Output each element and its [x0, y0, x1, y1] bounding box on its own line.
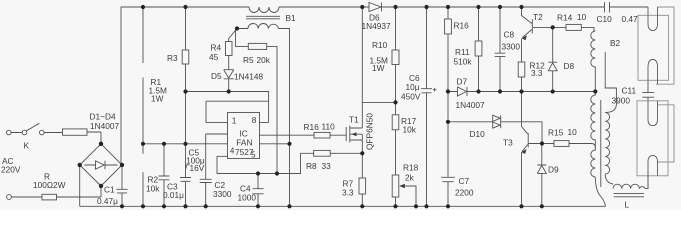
svg-text:R15: R15 [548, 128, 564, 138]
svg-text:510k: 510k [454, 57, 473, 67]
svg-text:C11: C11 [622, 86, 637, 96]
svg-text:5: 5 [251, 151, 256, 160]
svg-text:3900: 3900 [612, 96, 631, 106]
svg-text:R11: R11 [455, 47, 470, 57]
svg-text:D8: D8 [564, 61, 575, 71]
svg-text:C7: C7 [459, 176, 470, 186]
svg-text:0.47μ: 0.47μ [97, 196, 118, 206]
svg-text:1W: 1W [151, 94, 164, 104]
svg-text:C1: C1 [104, 184, 115, 194]
svg-text:0.47: 0.47 [622, 14, 639, 24]
svg-text:L: L [625, 200, 630, 210]
svg-text:T3: T3 [503, 138, 513, 148]
svg-text:QFP6N50: QFP6N50 [364, 113, 374, 150]
svg-text:3.3: 3.3 [531, 68, 543, 78]
svg-text:16V: 16V [190, 163, 205, 173]
svg-text:R18: R18 [403, 163, 419, 173]
svg-text:FAN: FAN [236, 138, 252, 148]
svg-text:1N4007: 1N4007 [90, 121, 119, 131]
svg-text:8: 8 [252, 115, 257, 125]
svg-text:B1: B1 [286, 13, 297, 23]
svg-text:R10: R10 [372, 40, 388, 50]
svg-text:T1: T1 [349, 115, 359, 125]
svg-text:B2: B2 [610, 38, 621, 48]
svg-text:3300: 3300 [213, 189, 232, 199]
svg-text:2200: 2200 [455, 188, 474, 198]
svg-text:10: 10 [577, 12, 587, 22]
svg-text:3300: 3300 [502, 42, 521, 52]
svg-text:D7: D7 [457, 77, 468, 87]
svg-text:1N4937: 1N4937 [362, 21, 391, 31]
svg-text:450V: 450V [401, 92, 421, 102]
svg-text:2k: 2k [405, 173, 415, 183]
svg-text:1000: 1000 [238, 193, 257, 203]
svg-text:4: 4 [230, 147, 235, 156]
svg-text:R14: R14 [557, 13, 573, 23]
svg-text:1: 1 [232, 116, 237, 126]
svg-text:R3: R3 [167, 53, 178, 63]
svg-text:1N4007: 1N4007 [456, 100, 485, 110]
svg-text:R5: R5 [243, 55, 254, 65]
svg-text:10: 10 [568, 127, 578, 137]
svg-text:10k: 10k [146, 184, 160, 194]
svg-text:D5: D5 [211, 71, 222, 81]
svg-text:R4: R4 [211, 43, 222, 53]
svg-text:C10: C10 [597, 14, 613, 24]
svg-text:0.01μ: 0.01μ [163, 190, 184, 200]
svg-text:R16: R16 [304, 122, 320, 132]
svg-text:100Ω2W: 100Ω2W [33, 180, 66, 190]
svg-text:20k: 20k [257, 55, 271, 65]
svg-text:33: 33 [322, 161, 332, 171]
svg-text:10μ: 10μ [406, 82, 420, 92]
svg-text:T2: T2 [533, 12, 543, 22]
svg-text:110: 110 [322, 122, 336, 132]
svg-text:220V: 220V [1, 165, 21, 175]
svg-text:R16: R16 [454, 21, 470, 31]
svg-text:D9: D9 [548, 165, 559, 175]
svg-text:C8: C8 [504, 30, 515, 40]
svg-text:10k: 10k [403, 125, 417, 135]
svg-text:1W: 1W [372, 63, 385, 73]
svg-text:K: K [24, 141, 30, 151]
svg-text:3.3: 3.3 [342, 188, 354, 198]
svg-text:1N4148: 1N4148 [234, 72, 263, 82]
svg-text:D10: D10 [470, 129, 486, 139]
svg-text:R8: R8 [306, 161, 317, 171]
svg-text:45: 45 [209, 52, 219, 62]
